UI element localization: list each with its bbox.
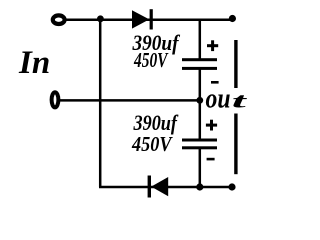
svg-text:450V: 450V xyxy=(133,48,169,72)
svg-text:In: In xyxy=(18,45,50,81)
svg-text:450V: 450V xyxy=(131,132,173,156)
svg-text:t: t xyxy=(232,89,248,112)
svg-text:ou: ou xyxy=(206,82,231,114)
